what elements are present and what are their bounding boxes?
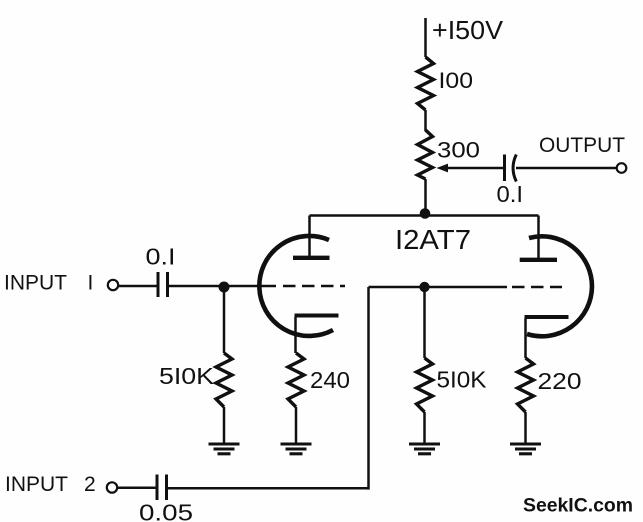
svg-text:I00: I00 — [439, 68, 474, 93]
wire C1 to grid node — [169, 285, 219, 288]
V1a cathode — [295, 314, 339, 318]
svg-text:I: I — [88, 272, 94, 295]
svg-text:INPUT: INPUT — [4, 272, 67, 295]
label 220 — [538, 368, 582, 394]
label 0.1 output — [497, 181, 524, 207]
wire between R1 and R2 — [424, 110, 427, 131]
V1a plate — [293, 256, 330, 260]
label OUTPUT — [539, 134, 625, 157]
junction dot grid2 — [419, 282, 429, 292]
input 1 terminal — [108, 280, 118, 290]
tube V1a envelope — [259, 236, 333, 336]
R3 ground lead — [223, 407, 226, 443]
label 510K right — [437, 367, 487, 393]
R6 ground lead — [524, 412, 527, 443]
label 0.05 — [139, 500, 193, 522]
R5 ground lead — [423, 412, 426, 443]
riser wire to grid2 — [367, 287, 370, 490]
watermark SeekIC.com — [523, 495, 633, 517]
junction dot rail — [420, 208, 431, 219]
label +150V — [432, 15, 504, 45]
junction dot grid1 — [219, 282, 230, 293]
ground R6 — [510, 444, 541, 454]
capacitor C3 0.05 — [157, 475, 167, 501]
R4 ground lead — [295, 407, 298, 443]
node +150V supply wire — [424, 18, 427, 57]
V1a plate lead — [308, 216, 311, 258]
label 240 — [310, 367, 350, 393]
resistor R1 100 — [418, 57, 434, 110]
svg-text:0.I: 0.I — [497, 181, 524, 207]
resistor R5 510K — [417, 358, 433, 412]
INPUT 1 label — [4, 272, 93, 295]
wire input1 to C1 — [118, 285, 157, 288]
ground R5 — [409, 444, 440, 454]
svg-text:2: 2 — [84, 473, 96, 496]
capacitor C2 0.1 output coupling — [505, 155, 517, 182]
svg-text:0.I: 0.I — [146, 244, 176, 270]
svg-text:+I50V: +I50V — [432, 15, 504, 45]
wiper arrow of R2 — [437, 164, 505, 173]
label 300 — [437, 138, 480, 163]
svg-text:5I0K: 5I0K — [437, 367, 487, 393]
wire C2 to output terminal — [516, 167, 617, 170]
wire C3 to riser — [168, 487, 369, 490]
ground R4 — [281, 444, 312, 454]
svg-text:SeekIC.com: SeekIC.com — [523, 495, 633, 517]
svg-text:240: 240 — [310, 367, 350, 393]
V1a cathode lead — [294, 317, 297, 353]
resistor R5 510K lead — [423, 287, 426, 358]
tube V1b envelope — [527, 236, 592, 336]
V1a grid wire solid — [224, 285, 276, 288]
V1b cathode lead — [524, 319, 527, 359]
label 510K left — [159, 363, 214, 389]
svg-text:220: 220 — [538, 368, 582, 394]
svg-text:OUTPUT: OUTPUT — [539, 134, 625, 157]
V1b plate lead — [537, 216, 540, 260]
V1b plate — [520, 258, 557, 262]
label 100 — [439, 68, 474, 93]
svg-text:I2AT7: I2AT7 — [395, 224, 471, 255]
svg-text:0.05: 0.05 — [139, 500, 193, 522]
plate supply rail — [310, 214, 539, 217]
output terminal circle — [617, 163, 627, 173]
wire input2 to C3 — [117, 487, 156, 490]
V1a grid dashed — [283, 285, 345, 288]
resistor R3 510K — [216, 353, 232, 407]
ground R3 — [209, 444, 240, 454]
V1b grid wire solid — [369, 286, 508, 289]
V1b cathode — [525, 315, 569, 319]
capacitor C1 0.1 — [158, 272, 168, 297]
INPUT 2 label — [5, 473, 96, 496]
svg-text:300: 300 — [437, 138, 480, 163]
potentiometer R2 300 — [418, 130, 433, 179]
input 2 terminal — [107, 482, 117, 492]
resistor R6 220 — [518, 358, 534, 412]
resistor R3 510K lead — [223, 287, 226, 353]
resistor R4 240 — [288, 353, 304, 407]
V1b grid dashed — [512, 286, 562, 289]
wire below R2 to plate rail — [424, 179, 427, 216]
label 0.1 input — [146, 244, 176, 270]
svg-text:INPUT: INPUT — [5, 473, 68, 496]
svg-text:5I0K: 5I0K — [159, 363, 214, 389]
label 12AT7 — [395, 224, 471, 255]
